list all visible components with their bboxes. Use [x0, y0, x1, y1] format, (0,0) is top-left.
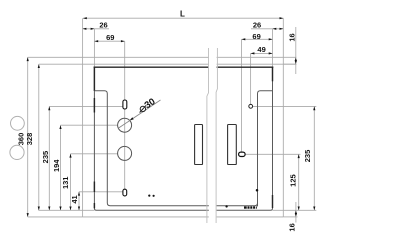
svg-text:16: 16 [287, 33, 296, 41]
svg-text:26: 26 [99, 21, 107, 30]
svg-text:328: 328 [25, 133, 34, 146]
svg-text:41: 41 [70, 195, 79, 203]
svg-text:235: 235 [303, 150, 312, 163]
svg-text:L: L [180, 10, 185, 19]
svg-text:69: 69 [106, 33, 114, 42]
svg-text:69: 69 [252, 32, 260, 41]
svg-text:125: 125 [289, 174, 298, 187]
svg-text:360: 360 [16, 133, 25, 146]
svg-text:131: 131 [61, 177, 70, 190]
svg-text:26: 26 [253, 20, 261, 29]
svg-text:16: 16 [287, 223, 296, 231]
svg-text:194: 194 [52, 159, 61, 172]
svg-text:49: 49 [257, 45, 265, 54]
svg-text:235: 235 [41, 151, 50, 164]
